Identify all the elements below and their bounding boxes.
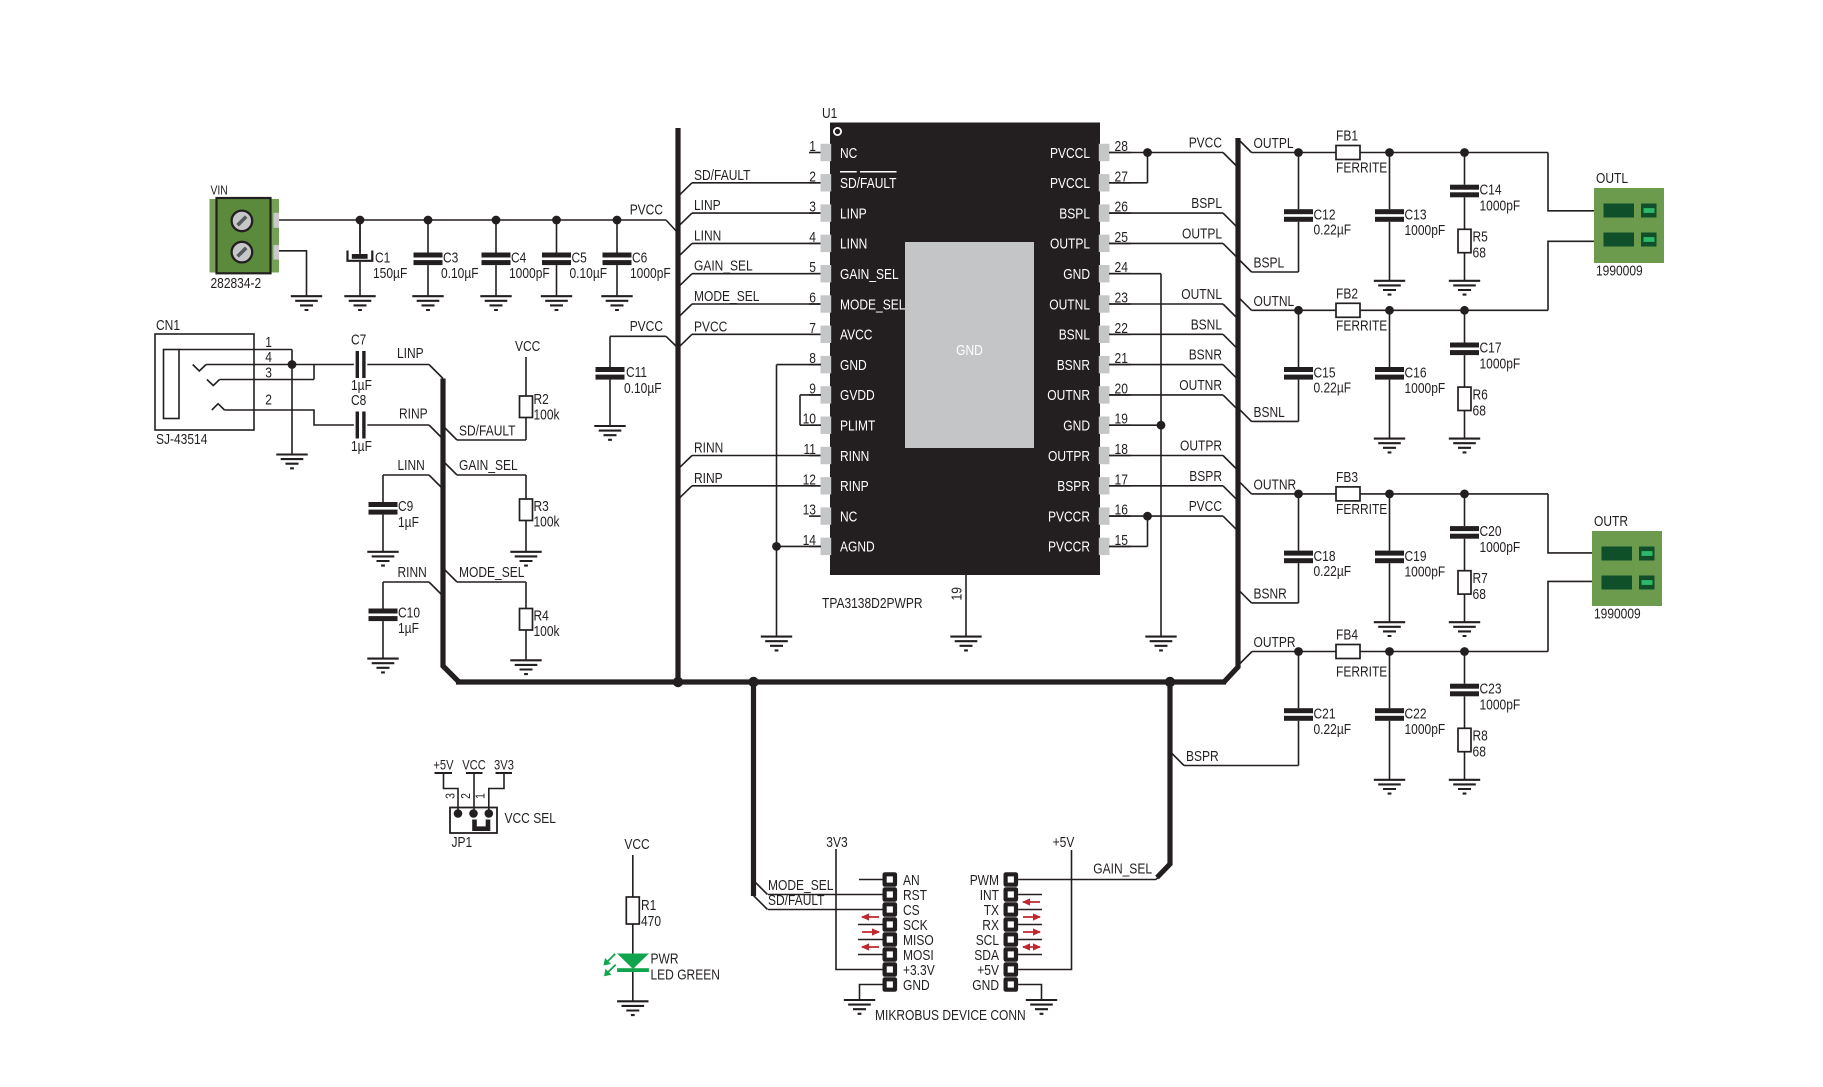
svg-text:3: 3 [265,365,272,382]
svg-text:R3: R3 [534,498,549,515]
svg-text:RINP: RINP [840,478,869,495]
svg-text:BSPR: BSPR [1189,468,1222,485]
svg-text:68: 68 [1473,744,1486,761]
svg-text:JP1: JP1 [452,834,473,851]
svg-text:GAIN_SEL: GAIN_SEL [459,457,518,474]
svg-text:OUTNR: OUTNR [1047,387,1090,404]
svg-text:GND: GND [840,357,867,374]
svg-text:PWR: PWR [651,951,679,968]
svg-text:VCC SEL: VCC SEL [505,810,556,827]
svg-text:TPA3138D2PWPR: TPA3138D2PWPR [822,595,923,612]
svg-text:C16: C16 [1405,364,1427,381]
svg-text:NC: NC [840,145,857,162]
svg-text:SD/FAULT: SD/FAULT [840,175,897,192]
svg-text:1990009: 1990009 [1594,606,1641,623]
svg-text:RINP: RINP [694,470,723,487]
svg-text:FERRITE: FERRITE [1336,160,1387,177]
svg-text:C20: C20 [1480,523,1502,540]
svg-text:C13: C13 [1405,207,1427,224]
svg-text:C22: C22 [1405,706,1427,723]
svg-text:1000pF: 1000pF [630,265,671,282]
svg-text:U1: U1 [822,105,837,122]
svg-text:1000pF: 1000pF [1405,721,1446,738]
svg-text:1000pF: 1000pF [1405,222,1446,239]
svg-text:GND: GND [1063,418,1090,435]
svg-text:FB3: FB3 [1336,469,1358,486]
svg-text:PVCC: PVCC [694,318,727,335]
svg-text:RINP: RINP [399,406,428,423]
svg-text:R2: R2 [534,391,549,408]
svg-text:PVCC: PVCC [1189,135,1222,152]
svg-text:100k: 100k [534,514,560,531]
svg-text:PVCC: PVCC [630,202,663,219]
svg-text:OUTR: OUTR [1594,513,1628,530]
svg-text:C17: C17 [1480,339,1502,356]
svg-text:1000pF: 1000pF [1405,380,1446,397]
svg-text:SD/FAULT: SD/FAULT [694,167,751,184]
svg-text:3V3: 3V3 [494,757,514,773]
svg-text:1990009: 1990009 [1596,263,1643,280]
svg-text:R1: R1 [641,897,656,914]
svg-text:PVCC: PVCC [630,318,663,335]
svg-text:C19: C19 [1405,548,1427,565]
svg-text:FERRITE: FERRITE [1336,317,1387,334]
svg-text:LINN: LINN [840,236,867,253]
svg-text:R7: R7 [1473,570,1488,587]
svg-text:RINN: RINN [840,448,869,465]
svg-text:+5V: +5V [1053,834,1075,851]
svg-text:MODE_SEL: MODE_SEL [459,564,524,581]
svg-text:19: 19 [949,587,966,600]
svg-text:BSNL: BSNL [1254,404,1285,421]
svg-text:LINN: LINN [398,457,425,474]
svg-text:C10: C10 [398,605,420,622]
svg-text:OUTPR: OUTPR [1180,438,1222,455]
svg-text:GND: GND [903,977,930,994]
svg-text:VIN: VIN [211,183,228,198]
svg-text:RINN: RINN [694,440,723,457]
svg-text:SD/FAULT: SD/FAULT [768,892,825,909]
svg-text:100k: 100k [534,407,560,424]
svg-text:NC: NC [840,508,857,525]
svg-text:0.10µF: 0.10µF [624,380,662,397]
svg-text:2: 2 [265,392,272,409]
svg-text:FERRITE: FERRITE [1336,664,1387,681]
svg-text:R5: R5 [1473,229,1488,246]
svg-text:1µF: 1µF [351,438,372,455]
svg-text:1: 1 [473,793,488,799]
svg-text:OUTNL: OUTNL [1049,296,1090,313]
svg-text:OUTNR: OUTNR [1254,476,1297,493]
svg-text:PLIMT: PLIMT [840,418,875,435]
svg-text:3V3: 3V3 [826,834,847,851]
svg-text:2: 2 [458,793,473,799]
svg-text:+5V: +5V [433,757,454,773]
svg-text:0.10µF: 0.10µF [570,265,608,282]
svg-text:VCC: VCC [624,836,649,853]
svg-text:1000pF: 1000pF [1480,198,1521,215]
svg-text:PVCC: PVCC [1189,498,1222,515]
svg-text:C8: C8 [351,392,366,409]
svg-text:BSPL: BSPL [1191,195,1222,212]
svg-text:0.22µF: 0.22µF [1314,721,1352,738]
svg-text:OUTPR: OUTPR [1048,448,1090,465]
svg-text:C6: C6 [632,250,647,267]
svg-text:PVCCR: PVCCR [1048,508,1090,525]
svg-text:PVCCL: PVCCL [1050,175,1090,192]
svg-text:MIKROBUS DEVICE CONN: MIKROBUS DEVICE CONN [875,1007,1026,1024]
svg-text:0.10µF: 0.10µF [441,265,479,282]
svg-text:BSPR: BSPR [1186,748,1219,765]
svg-text:C21: C21 [1314,706,1336,723]
svg-text:OUTPL: OUTPL [1254,135,1294,152]
svg-text:68: 68 [1473,402,1486,419]
svg-text:LINP: LINP [694,197,721,214]
svg-text:VCC: VCC [515,338,540,355]
svg-text:1000pF: 1000pF [1480,539,1521,556]
svg-text:4: 4 [265,349,272,366]
svg-text:C1: C1 [375,250,390,267]
svg-text:LINN: LINN [694,227,721,244]
svg-text:68: 68 [1473,586,1486,603]
svg-text:PVCCR: PVCCR [1048,539,1090,556]
svg-text:OUTPL: OUTPL [1050,236,1090,253]
svg-text:VCC: VCC [462,757,486,773]
svg-text:GVDD: GVDD [840,387,875,404]
svg-text:470: 470 [641,913,661,930]
svg-text:OUTPR: OUTPR [1254,634,1296,651]
svg-text:R4: R4 [534,608,549,625]
svg-text:OUTNL: OUTNL [1254,293,1295,310]
svg-text:C14: C14 [1480,182,1502,199]
svg-text:AVCC: AVCC [840,327,873,344]
svg-text:GAIN_SEL: GAIN_SEL [840,266,899,283]
svg-text:C9: C9 [398,498,413,515]
svg-text:C5: C5 [572,250,587,267]
svg-text:BSPL: BSPL [1059,205,1090,222]
svg-text:1µF: 1µF [398,620,419,637]
svg-text:GAIN_SEL: GAIN_SEL [1093,861,1152,878]
svg-text:FB4: FB4 [1336,627,1358,644]
svg-text:AGND: AGND [840,539,875,556]
svg-text:1000pF: 1000pF [1480,355,1521,372]
svg-text:RINN: RINN [398,564,427,581]
svg-text:R6: R6 [1473,386,1488,403]
svg-text:0.22µF: 0.22µF [1314,563,1352,580]
svg-text:OUTNL: OUTNL [1181,286,1222,303]
svg-text:BSNL: BSNL [1059,327,1090,344]
svg-text:0.22µF: 0.22µF [1314,222,1352,239]
svg-text:0.22µF: 0.22µF [1314,379,1352,396]
svg-text:MODE_SEL: MODE_SEL [840,296,905,313]
svg-text:BSPR: BSPR [1057,478,1090,495]
svg-text:1000pF: 1000pF [1405,563,1446,580]
svg-text:BSNL: BSNL [1191,316,1222,333]
svg-text:BSNR: BSNR [1189,347,1222,364]
svg-text:BSNR: BSNR [1057,357,1090,374]
svg-text:OUTNR: OUTNR [1179,377,1222,394]
svg-text:1000pF: 1000pF [1480,697,1521,714]
svg-text:LED GREEN: LED GREEN [651,967,720,984]
svg-text:282834-2: 282834-2 [211,275,262,292]
svg-text:C4: C4 [511,250,526,267]
svg-text:3: 3 [443,793,458,799]
svg-text:MODE_SEL: MODE_SEL [694,288,759,305]
svg-text:SJ-43514: SJ-43514 [156,431,207,448]
svg-text:SD/FAULT: SD/FAULT [459,423,516,440]
svg-text:CN1: CN1 [156,317,180,334]
svg-text:PVCCL: PVCCL [1050,145,1090,162]
svg-text:BSNR: BSNR [1254,585,1287,602]
svg-text:FERRITE: FERRITE [1336,501,1387,518]
svg-text:LINP: LINP [840,205,867,222]
svg-text:150µF: 150µF [373,265,407,282]
svg-text:R8: R8 [1473,728,1488,745]
svg-text:GAIN_SEL: GAIN_SEL [694,258,753,275]
svg-text:1µF: 1µF [398,514,419,531]
svg-text:1000pF: 1000pF [509,265,550,282]
svg-text:C3: C3 [443,250,458,267]
svg-text:FB1: FB1 [1336,128,1358,145]
svg-text:C11: C11 [626,364,647,381]
svg-text:C23: C23 [1480,681,1502,698]
svg-text:LINP: LINP [397,345,424,362]
svg-text:GND: GND [1063,266,1090,283]
svg-text:GND: GND [956,342,983,359]
svg-text:GND: GND [972,977,999,994]
svg-text:68: 68 [1473,245,1486,262]
svg-text:C7: C7 [351,332,366,349]
svg-text:BSPL: BSPL [1254,255,1285,272]
svg-text:OUTL: OUTL [1596,170,1628,187]
svg-text:100k: 100k [534,623,560,640]
svg-text:FB2: FB2 [1336,285,1358,302]
svg-text:OUTPL: OUTPL [1182,225,1222,242]
